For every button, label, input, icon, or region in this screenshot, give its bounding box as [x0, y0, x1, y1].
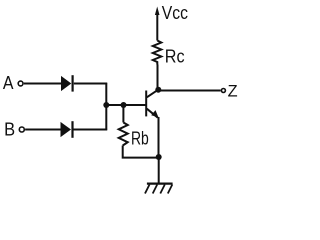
- terminal B: [19, 127, 24, 132]
- wire collector node up to Rc: [157, 65, 159, 91]
- wire A to diode D1: [24, 83, 61, 85]
- label Vcc: [162, 3, 188, 23]
- label Rc: [165, 47, 185, 67]
- label Rb: [131, 129, 149, 149]
- wire collector node to Z terminal: [158, 90, 220, 92]
- svg-text:Z: Z: [228, 82, 238, 100]
- resistor Rb: [119, 123, 128, 146]
- junction node 1: [103, 102, 109, 108]
- wire D1 to node column: [74, 83, 107, 85]
- svg-text:Rc: Rc: [165, 47, 185, 67]
- wire Rc up to Vcc arrow: [156, 13, 158, 41]
- wire vertical joining column: [105, 83, 107, 131]
- diode D2: [61, 121, 73, 138]
- terminal Z: [221, 89, 225, 93]
- wire B to diode D2: [25, 129, 60, 131]
- wire node2 down to Rb: [122, 105, 124, 123]
- ground: [145, 184, 173, 194]
- wire node1 to base: [106, 104, 146, 106]
- terminal A: [18, 81, 23, 86]
- node Z label: [228, 82, 238, 100]
- wire D2 to node column: [73, 129, 107, 131]
- transistor Q1: [146, 90, 158, 118]
- wire Rb bottom to emitter node: [123, 146, 159, 158]
- svg-text:A: A: [3, 73, 14, 93]
- wire node to ground: [158, 157, 160, 184]
- diode D1: [61, 75, 73, 91]
- node B label: [4, 119, 15, 139]
- svg-text:Rb: Rb: [131, 129, 149, 149]
- junction node 2 (Rb tap): [121, 102, 127, 108]
- junction emitter node: [156, 154, 162, 160]
- resistor Rc: [153, 41, 162, 65]
- junction collector node: [155, 87, 161, 93]
- svg-text:Vcc: Vcc: [162, 3, 188, 23]
- wire emitter down to node: [158, 117, 160, 157]
- Vcc power arrow: [155, 7, 160, 16]
- svg-text:B: B: [4, 119, 15, 139]
- node A label: [3, 73, 14, 93]
